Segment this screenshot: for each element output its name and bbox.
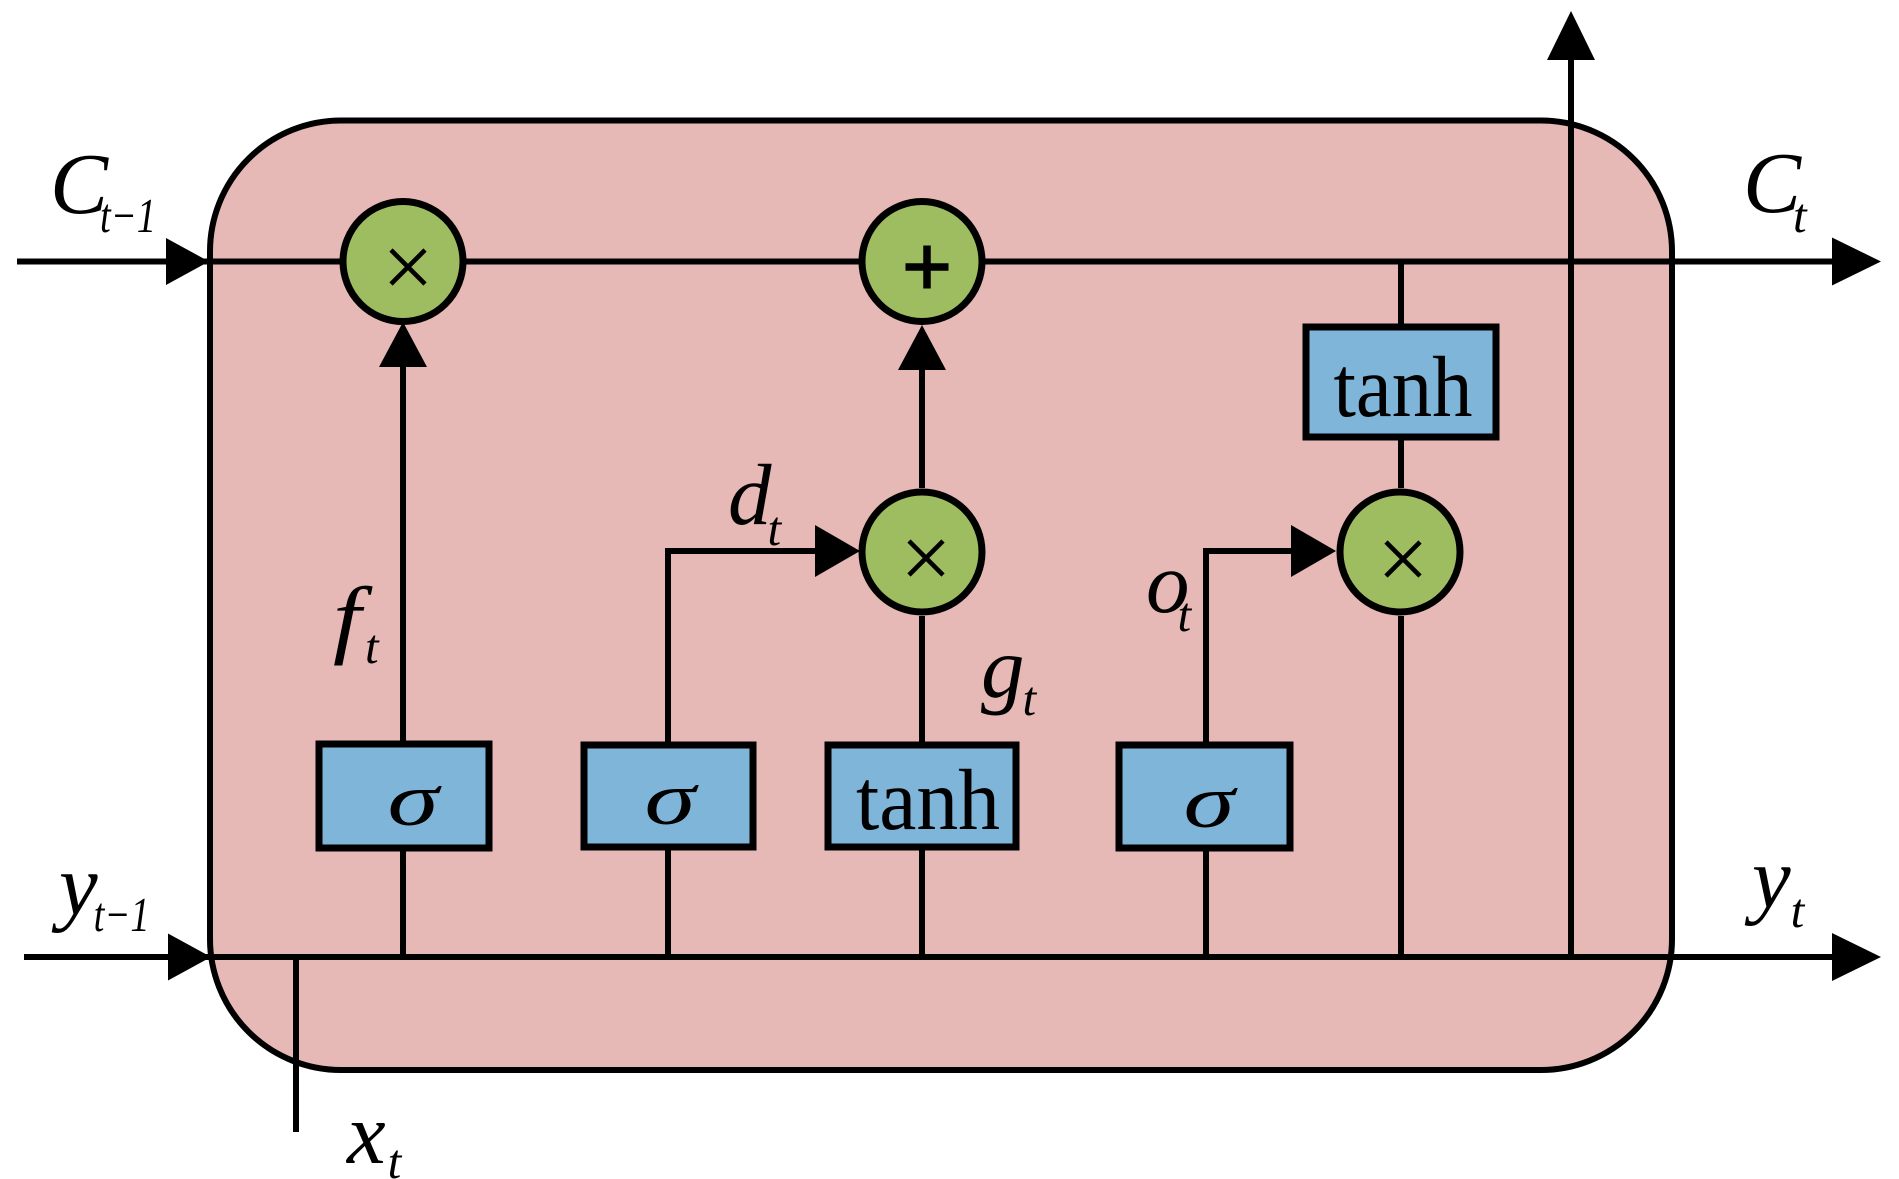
wire: sigma1 down to y line <box>400 848 406 957</box>
wire: tanh1 down to multiply node 3 <box>1398 437 1404 488</box>
svg-text:σ: σ <box>388 759 443 842</box>
LSTM cell body <box>210 121 1672 1071</box>
multiply node 1 (forget) <box>343 202 463 322</box>
arrowhead y_t output right <box>1832 933 1881 981</box>
tanh2 box (candidate) <box>828 745 1016 847</box>
multiply node 3 (output) <box>1340 492 1460 612</box>
svg-text:tanh: tanh <box>1334 338 1473 435</box>
sigma3 box <box>1119 745 1290 848</box>
svg-text:σ: σ <box>645 758 700 841</box>
wire: o gate elbow from sigma3 up and right to multiply node 3 <box>1206 551 1294 744</box>
multiply node 2 (input) <box>862 492 982 612</box>
svg-text:ot: ot <box>1146 534 1193 642</box>
add node <box>862 202 982 322</box>
wire: tanh2 down to y line <box>919 847 925 957</box>
arrowhead into cell on C line <box>166 238 209 285</box>
arrowhead recurrent output top <box>1547 11 1595 60</box>
svg-text:Ct: Ct <box>1743 134 1808 243</box>
wire: d gate elbow from sigma2 up and right to multiply node 2 <box>668 551 818 744</box>
arrowhead into multiply node 3 (o_t) <box>1291 525 1336 577</box>
wire: x_t input stub <box>293 957 299 1132</box>
wire: sigma3 down to y line <box>1203 848 1209 957</box>
svg-text:tanh: tanh <box>856 751 1000 848</box>
svg-text:σ: σ <box>1184 761 1239 844</box>
wire: f gate vertical up from sigma1 to multiply node 1 <box>400 362 406 744</box>
sigma2 box <box>584 745 753 847</box>
sigma1 box <box>319 744 489 848</box>
tanh1 box (output tanh) <box>1306 327 1496 437</box>
wire: tanh2 up to multiply node 2 <box>919 616 925 745</box>
arrowhead into cell on y line <box>168 934 211 981</box>
wire: multiply node 3 down to y line <box>1398 616 1404 957</box>
wire: C line branch down to tanh1 <box>1398 262 1404 328</box>
arrowhead into multiply node 2 (d_t) <box>815 525 860 577</box>
arrowhead into multiply node 1 <box>379 322 427 367</box>
arrowhead into add node <box>898 325 946 370</box>
wire: output line y (horizontal, y=957) <box>24 954 1840 960</box>
wire: multiply node 2 up to add node <box>919 365 925 488</box>
arrowhead C_t output right <box>1832 238 1881 286</box>
wire: cell state line C (horizontal, y=261.5) <box>17 259 1840 265</box>
wire: recurrent output up (x=1571) <box>1568 57 1574 957</box>
wire: sigma2 down to y line <box>665 846 671 957</box>
